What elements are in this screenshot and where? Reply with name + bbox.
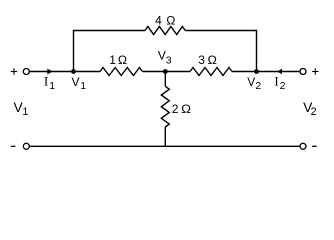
svg-text:V: V	[72, 75, 80, 89]
svg-text:I: I	[44, 74, 48, 89]
label 3 Ω	[198, 53, 217, 67]
svg-text:V: V	[158, 49, 166, 63]
svg-text:1: 1	[22, 106, 28, 118]
port terminal, upper-left	[23, 69, 29, 75]
label node V3	[158, 49, 172, 67]
svg-text:2: 2	[172, 102, 179, 116]
polarity - (left port)	[11, 145, 16, 147]
wire: middle rail, R3 to terminal through node V2	[232, 71, 300, 73]
svg-text:Ω: Ω	[166, 14, 175, 28]
svg-text:4: 4	[155, 14, 162, 28]
polarity + (right port)	[312, 68, 318, 74]
node V2 (junction dot)	[254, 69, 259, 74]
wire: 2Ω upper lead from node V3	[164, 72, 166, 87]
wire: 2Ω lower lead to bottom rail	[164, 127, 166, 146]
label 2 Ω	[172, 102, 191, 116]
polarity + (left port)	[11, 68, 17, 74]
node V1 (junction dot)	[71, 69, 76, 74]
svg-text:1: 1	[49, 80, 55, 92]
label I2	[274, 74, 285, 92]
label node V1	[72, 75, 87, 92]
svg-text:3: 3	[198, 53, 205, 67]
port terminal, lower-left	[23, 143, 29, 149]
current arrow I1	[47, 69, 53, 75]
svg-text:2: 2	[311, 106, 317, 118]
port terminal, upper-right	[300, 69, 306, 75]
svg-text:V: V	[247, 75, 255, 89]
svg-text:1: 1	[109, 53, 116, 67]
wire: middle rail, R1 to R3 through node V3	[143, 71, 191, 73]
svg-text:2: 2	[280, 80, 286, 92]
svg-text:2: 2	[255, 80, 261, 92]
wire: bottom rail	[29, 145, 300, 147]
node V3 (junction dot)	[163, 69, 168, 74]
label node V2	[247, 75, 261, 92]
resistor R4 4Ω (top branch)	[145, 27, 185, 35]
label port voltage V2	[303, 100, 317, 118]
current arrow I2	[277, 69, 282, 75]
label I1	[44, 74, 55, 93]
svg-text:Ω: Ω	[208, 53, 217, 67]
wire: top branch right segment + right vertical	[185, 31, 256, 72]
svg-text:I: I	[274, 74, 278, 89]
port terminal, lower-right	[300, 143, 306, 149]
label 4 Ω	[155, 14, 175, 28]
resistor R2 2Ω (vertical)	[161, 86, 169, 127]
label 1 Ω	[109, 53, 127, 67]
resistor R3 3Ω	[190, 68, 232, 76]
svg-text:Ω: Ω	[181, 102, 191, 116]
resistor R1 1Ω	[100, 68, 143, 76]
wire: top branch left vertical + left segment	[74, 31, 146, 72]
wire: middle rail, terminal to node V1	[29, 71, 100, 73]
svg-text:1: 1	[80, 80, 86, 92]
svg-text:3: 3	[166, 55, 172, 67]
polarity - (right port)	[312, 145, 317, 147]
svg-text:Ω: Ω	[118, 53, 127, 67]
label port voltage V1	[14, 100, 29, 118]
